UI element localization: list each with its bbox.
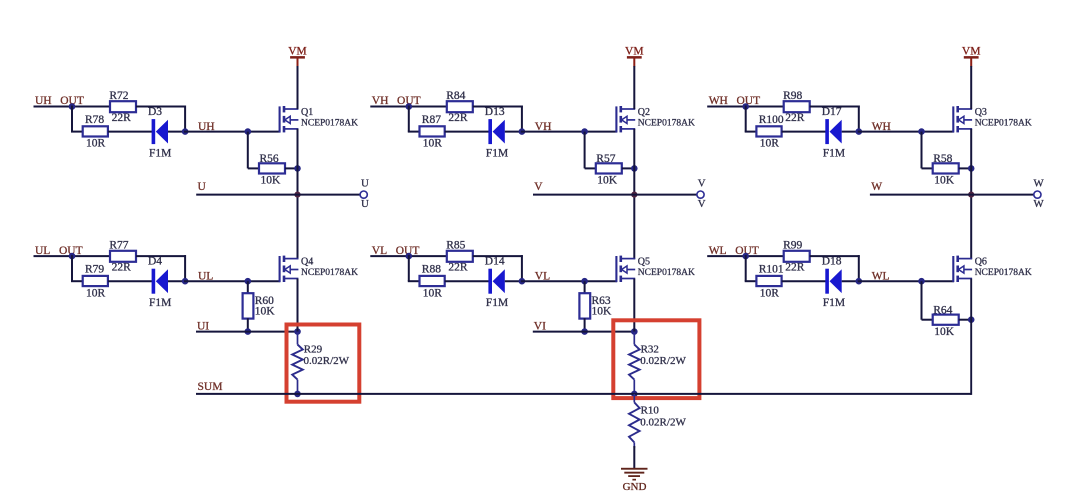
resistor R60 10K <box>243 293 276 318</box>
junction node VH <box>519 128 526 135</box>
highlight box R29 <box>287 325 360 402</box>
junction node UH <box>182 128 189 135</box>
wire gate branch down to R63 <box>584 281 586 294</box>
wire corner down <box>858 106 860 132</box>
resistor R64 10K <box>933 304 959 338</box>
svg-text:D4: D4 <box>148 256 162 268</box>
resistor R85 22R <box>446 240 473 274</box>
transistor Q4 NCEP0178AK <box>280 256 359 283</box>
svg-text:SUM: SUM <box>198 381 223 393</box>
svg-text:R32: R32 <box>641 344 659 356</box>
svg-text:W: W <box>871 181 882 193</box>
wire phase W <box>870 194 1034 196</box>
resistor R101 10R <box>756 263 783 299</box>
wire R79 to D4 <box>108 280 153 282</box>
wire R64 to source <box>959 319 972 321</box>
wire R57 to source <box>622 167 635 169</box>
wire lower branch to R101 <box>745 280 758 282</box>
junction R63 on VI <box>581 328 588 335</box>
wire UL OUT input <box>34 255 111 257</box>
svg-text:0.02R/2W: 0.02R/2W <box>640 355 686 367</box>
wire R88 to D14 <box>445 280 490 282</box>
svg-text:VL OUT: VL OUT <box>372 245 420 257</box>
wire R98 to corner <box>810 106 860 108</box>
junction phase W <box>968 192 974 198</box>
wire phase V <box>533 194 697 196</box>
junction VL OUT <box>406 253 413 260</box>
svg-text:0.02R/2W: 0.02R/2W <box>304 355 350 367</box>
wire R10 to ground <box>633 446 635 468</box>
wire WL OUT branch down <box>745 255 747 281</box>
resistor R79 10R <box>83 263 108 299</box>
wire source to sense R29 <box>297 279 299 332</box>
port W <box>1033 177 1044 210</box>
diode D18 F1M <box>822 256 845 309</box>
wire WH to gate <box>858 131 954 133</box>
wire D17 to junction <box>842 131 860 133</box>
resistor R72 22R <box>109 90 136 124</box>
svg-text:10R: 10R <box>423 287 443 299</box>
svg-text:NCEP0178AK: NCEP0178AK <box>975 118 1032 128</box>
junction WL OUT <box>742 253 749 260</box>
junction R32 on SUM <box>631 391 638 398</box>
resistor R77 22R <box>109 240 136 274</box>
diode D13 F1M <box>485 106 508 159</box>
wire VH OUT branch down <box>408 106 410 132</box>
wire lower branch to R100 <box>745 131 758 133</box>
svg-text:R79: R79 <box>85 263 104 275</box>
wire R84 to corner <box>473 106 523 108</box>
svg-text:WH OUT: WH OUT <box>709 95 760 107</box>
junction VI sense <box>631 328 638 335</box>
wire D3 to junction <box>168 131 186 133</box>
svg-text:10R: 10R <box>86 138 106 150</box>
junction VH OUT <box>406 103 413 110</box>
resistor R87 10R <box>420 114 445 150</box>
svg-text:Q1: Q1 <box>301 107 313 118</box>
junction R60 on UI <box>245 328 252 335</box>
resistor R56 10K <box>259 153 285 187</box>
wire phase U <box>196 194 360 196</box>
junction gate node VH <box>581 128 588 135</box>
wire SUM bus <box>196 393 971 395</box>
wire R63 to node VI <box>584 318 586 331</box>
wire Q6 source to SUM <box>970 279 971 394</box>
svg-text:F1M: F1M <box>823 297 845 309</box>
wire WH OUT input <box>707 106 784 108</box>
svg-text:NCEP0178AK: NCEP0178AK <box>638 268 695 278</box>
resistor R57 10K <box>596 153 622 187</box>
wire R77 to corner <box>136 255 186 257</box>
diode D3 F1M <box>148 106 171 159</box>
svg-text:U: U <box>361 177 369 189</box>
wire lower branch to R88 <box>408 280 421 282</box>
wire V source down <box>633 129 635 259</box>
diode D4 F1M <box>148 256 171 309</box>
junction UL OUT <box>69 253 76 260</box>
wire U source down <box>297 129 299 259</box>
wire R72 to corner <box>136 106 186 108</box>
wire UH OUT input <box>34 106 111 108</box>
svg-text:D13: D13 <box>485 106 505 118</box>
svg-text:10K: 10K <box>934 175 955 187</box>
wire R99 to corner <box>810 255 860 257</box>
resistor R58 10K <box>933 153 959 187</box>
svg-text:R100: R100 <box>759 114 784 126</box>
svg-text:10K: 10K <box>597 175 618 187</box>
wire VL OUT input <box>370 255 447 257</box>
svg-text:Q3: Q3 <box>975 107 987 118</box>
wire WL to gate <box>858 280 954 282</box>
junction node UL <box>182 278 189 285</box>
resistor R98 22R <box>783 90 810 124</box>
junction gate node WL <box>918 278 925 285</box>
junction gate node UH <box>245 128 252 135</box>
junction R56 source <box>294 165 301 172</box>
svg-text:U: U <box>361 198 369 210</box>
wire corner down <box>184 106 186 132</box>
svg-text:10R: 10R <box>760 287 780 299</box>
svg-text:0.02R/2W: 0.02R/2W <box>640 417 686 429</box>
svg-text:R87: R87 <box>422 114 441 126</box>
wire R58 to source <box>959 167 972 169</box>
svg-text:R101: R101 <box>759 263 784 275</box>
junction R29 on SUM <box>294 391 301 398</box>
svg-text:UL OUT: UL OUT <box>35 245 83 257</box>
junction R57 source <box>631 165 638 172</box>
wire lower branch to R78 <box>71 131 84 133</box>
wire D13 to junction <box>505 131 523 133</box>
wire branch to R58 <box>922 167 933 169</box>
power symbol VM <box>962 45 981 66</box>
junction R64 source <box>968 316 975 323</box>
wire R56 to source <box>285 167 298 169</box>
power symbol VM <box>625 45 644 66</box>
svg-text:F1M: F1M <box>149 147 171 159</box>
svg-text:D17: D17 <box>822 106 842 118</box>
diode D14 F1M <box>485 256 508 309</box>
port U <box>360 177 369 210</box>
svg-text:10K: 10K <box>261 175 282 187</box>
svg-text:D3: D3 <box>148 106 162 118</box>
svg-text:22R: 22R <box>785 262 805 274</box>
junction node WH <box>856 128 863 135</box>
svg-text:VM: VM <box>625 45 644 57</box>
svg-text:R88: R88 <box>422 263 441 275</box>
svg-text:Q6: Q6 <box>975 257 987 268</box>
svg-text:V: V <box>534 181 543 193</box>
wire WL OUT input <box>707 255 784 257</box>
junction UI sense <box>294 328 301 335</box>
svg-text:10K: 10K <box>592 306 613 318</box>
wire R85 to corner <box>473 255 523 257</box>
resistor R100 10R <box>756 114 783 150</box>
svg-text:D14: D14 <box>485 256 505 268</box>
wire D4 to junction <box>168 280 186 282</box>
svg-text:V: V <box>698 177 706 189</box>
resistor R29 0.02R/2W <box>292 332 349 394</box>
svg-text:10R: 10R <box>760 138 780 150</box>
svg-text:F1M: F1M <box>823 147 845 159</box>
svg-text:Q5: Q5 <box>638 257 650 268</box>
wire corner down <box>521 106 523 132</box>
wire branch to R64 <box>922 319 933 321</box>
wire W source down <box>970 129 972 259</box>
svg-text:F1M: F1M <box>486 297 508 309</box>
transistor Q6 NCEP0178AK <box>953 256 1032 283</box>
resistor R78 10R <box>83 114 108 150</box>
wire gate branch down to R57 <box>584 132 586 169</box>
wire VM to drain <box>297 66 299 109</box>
junction gate node UL <box>245 278 252 285</box>
wire branch to R57 <box>585 167 596 169</box>
ground GND <box>621 468 648 493</box>
transistor Q2 NCEP0178AK <box>616 106 695 133</box>
port V <box>697 177 706 210</box>
junction UH OUT <box>69 103 76 110</box>
resistor R99 22R <box>783 240 810 274</box>
wire VM to drain <box>633 66 635 109</box>
wire VM to drain <box>970 66 972 109</box>
svg-text:NCEP0178AK: NCEP0178AK <box>975 268 1032 278</box>
svg-text:UH OUT: UH OUT <box>35 95 84 107</box>
junction node VL <box>519 278 526 285</box>
transistor Q1 NCEP0178AK <box>280 106 359 133</box>
junction WH OUT <box>742 103 749 110</box>
svg-text:VM: VM <box>962 45 981 57</box>
wire source to sense R32 <box>633 279 635 332</box>
wire VH OUT input <box>370 106 447 108</box>
wire UH to gate <box>184 131 280 133</box>
svg-text:10K: 10K <box>255 306 276 318</box>
wire R78 to D3 <box>108 131 153 133</box>
svg-text:10R: 10R <box>86 287 106 299</box>
diode D17 F1M <box>822 106 845 159</box>
svg-text:R10: R10 <box>641 405 660 417</box>
svg-text:10K: 10K <box>934 326 955 338</box>
junction R58 source <box>968 165 975 172</box>
svg-text:R78: R78 <box>85 114 104 126</box>
resistor R32 0.02R/2W <box>629 332 686 394</box>
wire corner down <box>184 255 186 281</box>
svg-text:22R: 22R <box>785 112 805 124</box>
svg-text:Q4: Q4 <box>301 257 313 268</box>
junction gate node VL <box>581 278 588 285</box>
svg-text:VM: VM <box>288 45 307 57</box>
wire gate branch down to R60 <box>247 281 249 294</box>
wire lower branch to R87 <box>408 131 421 133</box>
svg-text:10R: 10R <box>423 138 443 150</box>
wire UL to gate <box>184 280 280 282</box>
svg-text:F1M: F1M <box>486 147 508 159</box>
wire gate branch down to R56 <box>247 132 249 169</box>
svg-text:22R: 22R <box>112 112 132 124</box>
wire D18 to junction <box>842 280 860 282</box>
wire R100 to D17 <box>782 131 827 133</box>
junction node WL <box>856 278 863 285</box>
svg-text:W: W <box>1033 177 1044 189</box>
transistor Q3 NCEP0178AK <box>953 106 1032 133</box>
svg-text:D18: D18 <box>822 256 842 268</box>
wire lower branch to R79 <box>71 280 84 282</box>
resistor R88 10R <box>420 263 445 299</box>
wire UL OUT branch down <box>71 255 73 281</box>
wire gate branch down to R64 <box>921 281 923 320</box>
svg-text:22R: 22R <box>448 262 468 274</box>
junction gate node WH <box>918 128 925 135</box>
svg-text:VH OUT: VH OUT <box>372 95 421 107</box>
transistor Q5 NCEP0178AK <box>616 256 695 283</box>
svg-text:22R: 22R <box>448 112 468 124</box>
svg-text:WL OUT: WL OUT <box>709 245 759 257</box>
wire UH OUT branch down <box>71 106 73 132</box>
svg-text:NCEP0178AK: NCEP0178AK <box>301 118 358 128</box>
resistor R63 10K <box>579 293 612 318</box>
power symbol VM <box>288 45 307 66</box>
junction phase V <box>631 192 637 198</box>
wire corner down <box>858 255 860 281</box>
svg-text:F1M: F1M <box>149 297 171 309</box>
resistor R10 0.02R/2W <box>629 394 686 448</box>
wire R101 to D18 <box>782 280 827 282</box>
svg-text:NCEP0178AK: NCEP0178AK <box>638 118 695 128</box>
highlight box R32 <box>613 320 699 398</box>
wire VH to gate <box>521 131 617 133</box>
svg-text:W: W <box>1033 198 1044 210</box>
wire WH OUT branch down <box>745 106 747 132</box>
wire branch to R56 <box>248 167 259 169</box>
svg-text:V: V <box>698 198 706 210</box>
svg-text:Q2: Q2 <box>638 107 650 118</box>
wire D14 to junction <box>505 280 523 282</box>
svg-text:R29: R29 <box>304 344 323 356</box>
wire node UI <box>196 331 298 333</box>
wire VL to gate <box>521 280 617 282</box>
wire node VI <box>533 331 635 333</box>
wire gate branch down to R58 <box>921 132 923 169</box>
svg-text:U: U <box>198 181 207 193</box>
svg-text:NCEP0178AK: NCEP0178AK <box>301 268 358 278</box>
wire VL OUT branch down <box>408 255 410 281</box>
wire R87 to D13 <box>445 131 490 133</box>
junction phase U <box>294 192 300 198</box>
resistor R84 22R <box>446 90 473 124</box>
wire R60 to node UI <box>247 318 249 331</box>
svg-text:GND: GND <box>623 481 647 493</box>
wire corner down <box>521 255 523 281</box>
svg-text:22R: 22R <box>112 262 132 274</box>
